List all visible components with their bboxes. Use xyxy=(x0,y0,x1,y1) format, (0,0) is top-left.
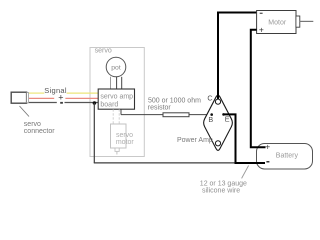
wire motor plus to battery plus xyxy=(251,30,266,148)
power amp Q1 package xyxy=(204,95,233,150)
leads board to servo motor xyxy=(113,109,119,124)
pin E dot xyxy=(222,113,225,116)
svg-text:board: board xyxy=(100,101,118,108)
svg-text:motor: motor xyxy=(116,139,135,146)
servo motor xyxy=(111,124,135,155)
pointer silicone wire xyxy=(242,166,249,179)
wire collector to motor xyxy=(218,13,257,100)
svg-text:pot: pot xyxy=(111,64,121,71)
wire gray minus xyxy=(29,102,99,104)
svg-text:Battery: Battery xyxy=(276,153,299,160)
mounting hole bottom xyxy=(215,141,220,146)
wire ground bottom run xyxy=(94,162,235,164)
pin B dot xyxy=(210,113,213,116)
wire red plus xyxy=(29,97,99,99)
svg-text:C: C xyxy=(207,94,212,103)
mounting hole top xyxy=(215,99,220,104)
pot legs xyxy=(111,77,122,89)
svg-text:silicone wire: silicone wire xyxy=(202,187,240,194)
junction dot ground xyxy=(93,101,97,105)
svg-text:resistor: resistor xyxy=(148,104,172,111)
svg-text:B: B xyxy=(208,115,213,124)
svg-text:+: + xyxy=(58,93,63,103)
battery B1 xyxy=(257,142,313,169)
svg-text:12 or 13 gauge: 12 or 13 gauge xyxy=(200,180,247,187)
label - xyxy=(60,102,63,104)
pointer servo connector xyxy=(20,106,30,117)
svg-text:E: E xyxy=(225,114,230,123)
svg-text:Power Amp: Power Amp xyxy=(177,137,213,144)
wire board to resistor xyxy=(121,109,212,114)
motor M1 xyxy=(257,11,314,35)
servo box xyxy=(90,48,144,157)
pot U-pot xyxy=(106,57,126,77)
wire emitter to battery minus xyxy=(224,114,266,163)
svg-text:+: + xyxy=(259,25,264,35)
servo amp board xyxy=(98,89,134,109)
svg-text:Motor: Motor xyxy=(268,19,287,26)
label servo connector xyxy=(24,121,55,135)
wire yellow signal xyxy=(29,92,99,94)
svg-text:+: + xyxy=(265,142,270,152)
label resistor value xyxy=(148,98,201,112)
svg-text:connector: connector xyxy=(24,128,55,135)
servo connector xyxy=(11,92,28,103)
svg-text:servo amp: servo amp xyxy=(100,94,133,101)
label silicone wire xyxy=(200,180,247,194)
resistor R1 xyxy=(163,113,189,117)
wire ground down xyxy=(93,103,95,163)
svg-text:servo: servo xyxy=(95,48,112,55)
